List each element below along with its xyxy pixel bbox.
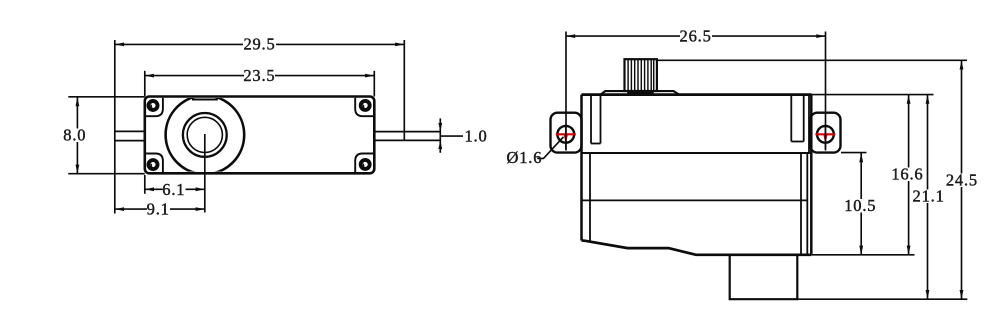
svg-text:24.5: 24.5	[946, 171, 978, 190]
svg-text:8.0: 8.0	[63, 125, 86, 144]
svg-text:10.5: 10.5	[844, 196, 876, 215]
svg-text:21.1: 21.1	[913, 187, 945, 206]
svg-text:26.5: 26.5	[680, 26, 712, 45]
svg-text:6.1: 6.1	[162, 180, 185, 199]
svg-text:1.0: 1.0	[465, 126, 488, 145]
svg-text:23.5: 23.5	[243, 66, 275, 85]
svg-text:16.6: 16.6	[891, 164, 923, 183]
svg-text:Ø1.6: Ø1.6	[507, 148, 543, 167]
svg-text:9.1: 9.1	[147, 200, 170, 219]
svg-text:29.5: 29.5	[243, 35, 275, 54]
